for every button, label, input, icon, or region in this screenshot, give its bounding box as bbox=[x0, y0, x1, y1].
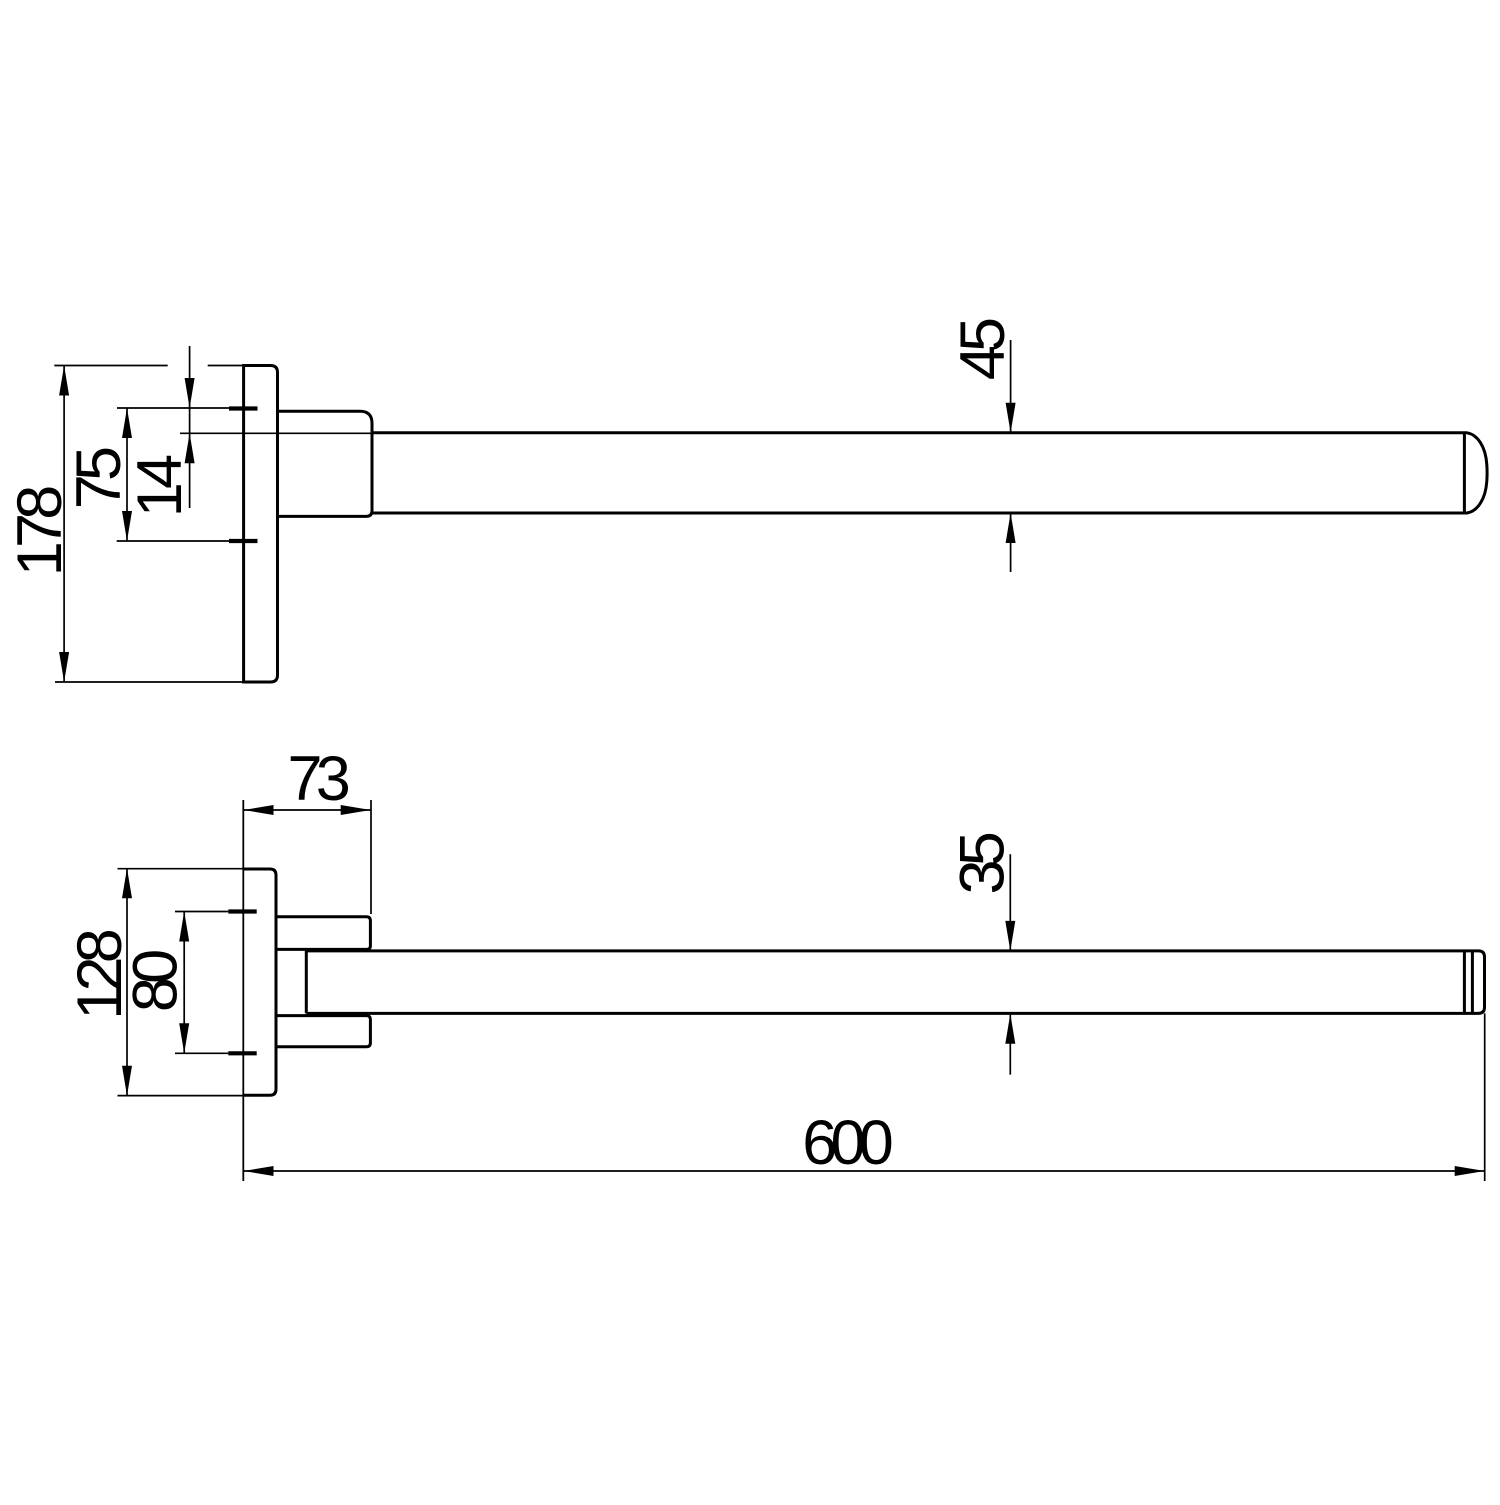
tick on 80 bottom extension bbox=[228, 1051, 256, 1055]
svg-text:73: 73 bbox=[287, 744, 348, 814]
dimension 80 line bbox=[183, 912, 185, 1054]
extension line at plate top (178 top reference) bbox=[54, 365, 243, 367]
svg-text:600: 600 bbox=[802, 1108, 891, 1178]
wall plate (bottom view) bbox=[243, 869, 276, 1095]
dimension 600 line bbox=[244, 1170, 1485, 1172]
dimension 35 line segments bbox=[1009, 854, 1011, 1074]
tick on extension line at plate edge (y541) bbox=[229, 539, 258, 543]
dimension 75 arrow down bbox=[122, 511, 132, 541]
extension line at plate bottom (178 bottom reference) bbox=[55, 681, 244, 683]
extension line at bracket top (75/14 top reference) bbox=[117, 407, 229, 409]
wall plate (top view) bbox=[244, 366, 278, 683]
dimension 45 line upper segment bbox=[1010, 340, 1012, 572]
dimension 73 arrow left bbox=[244, 805, 274, 815]
bar (bottom view) bbox=[306, 951, 1484, 1014]
dimension 128 line bbox=[126, 868, 128, 1096]
dimension 75 arrow up bbox=[122, 408, 132, 438]
dimension 35 arrow up bbox=[1005, 1014, 1015, 1044]
dimension 128 arrow up bbox=[122, 868, 132, 898]
dimension 14 arrow down (outside above) bbox=[185, 378, 195, 408]
dimension 80 arrow up bbox=[179, 912, 189, 942]
dimension 178 arrow down bbox=[59, 652, 69, 682]
extension of bar top edge (14 bottom reference) bbox=[180, 432, 372, 434]
dimension 14 line bbox=[189, 346, 191, 508]
dimension 45 arrow down bbox=[1006, 403, 1016, 433]
dimension 178 arrow up bbox=[59, 366, 69, 396]
lower fork arm (bottom view) bbox=[276, 1016, 370, 1047]
dimension 600 arrow left bbox=[244, 1166, 274, 1176]
tick on 80 top extension bbox=[228, 909, 256, 913]
mounting bracket (top view) bbox=[278, 411, 373, 516]
svg-text:14: 14 bbox=[125, 455, 195, 517]
extension line 600 right bbox=[1484, 1013, 1486, 1181]
dimension 14 arrow up (outside below) bbox=[185, 433, 195, 463]
upper fork arm (bottom view) bbox=[276, 917, 370, 950]
svg-text:45: 45 bbox=[948, 319, 1018, 380]
wall plate left edge with 73/600 extension line (bottom view) bbox=[242, 800, 244, 1181]
svg-text:80: 80 bbox=[121, 951, 191, 1012]
dimension 178 line bbox=[63, 366, 65, 683]
dimension 73 line bbox=[244, 809, 371, 811]
extension line (75 bottom reference) bbox=[117, 540, 229, 542]
svg-text:35: 35 bbox=[948, 833, 1018, 894]
extension line 80 top bbox=[175, 911, 228, 913]
extension line 73 right bbox=[370, 800, 372, 914]
dimension 600 arrow right bbox=[1455, 1166, 1485, 1176]
extension line 128 bottom bbox=[118, 1095, 244, 1097]
dimension 75 line bbox=[126, 408, 128, 541]
extension line 80 bottom bbox=[175, 1052, 228, 1054]
tick on extension line at plate edge (y408) bbox=[229, 406, 258, 410]
dimension 128 arrow down bbox=[122, 1066, 132, 1096]
dimension 45 arrow up bbox=[1006, 513, 1016, 543]
svg-text:75: 75 bbox=[64, 448, 134, 509]
dimension 80 arrow down bbox=[179, 1023, 189, 1053]
extension line 128 top bbox=[118, 868, 244, 870]
dimension 73 arrow right bbox=[341, 805, 371, 815]
dimension 35 arrow down bbox=[1005, 921, 1015, 951]
bar (top view) bbox=[372, 433, 1487, 513]
